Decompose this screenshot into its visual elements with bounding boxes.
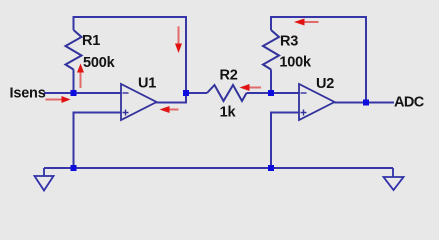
svg-text:R2: R2: [220, 68, 238, 84]
wire U1 feedback loop: R1 top lead, top wire, right drop to output: [74, 17, 187, 103]
resistor R1 (500k) zigzag: [66, 30, 82, 70]
svg-text:1k: 1k: [220, 105, 237, 121]
wire U2 feedback loop: R3 top lead, top wire, right drop: [271, 17, 366, 103]
resistor R2 (1k) zigzag: [207, 85, 247, 101]
svg-text:ADC: ADC: [394, 94, 425, 110]
node junction U2 output/feedback: [363, 100, 369, 106]
wire ground rail: [44, 167, 393, 169]
svg-text:R1: R1: [82, 33, 100, 49]
wire U2 noninverting input to ground: [271, 113, 299, 169]
current arrow right (Isens input): [46, 96, 71, 103]
node junction U1 output/feedback: [183, 90, 189, 96]
svg-text:500k: 500k: [83, 55, 116, 71]
wire Isens to U1 inverting input: [44, 92, 121, 94]
current arrow left (U1 output): [160, 106, 179, 113]
resistor R3 (100k) zigzag: [263, 30, 279, 70]
wire R2 right lead to U2 inverting input: [247, 92, 300, 94]
wire U1 noninverting input to ground: [74, 113, 122, 169]
wire R1 bottom lead: [73, 70, 75, 94]
current arrow left (U2 feedback): [294, 19, 319, 26]
wire R3 bottom lead: [270, 70, 272, 94]
wire U2 output to ADC: [335, 102, 395, 104]
svg-text:Isens: Isens: [10, 85, 46, 101]
svg-text:R3: R3: [280, 34, 298, 50]
svg-text:100k: 100k: [279, 55, 312, 71]
op-amp U1: [121, 84, 157, 120]
ground symbol left: [35, 168, 54, 191]
ground symbol right: [384, 168, 404, 190]
node junction Isens/R1/U1-: [71, 90, 77, 96]
wire U1 output to R2 left lead: [186, 92, 207, 94]
node junction U2+ ground: [268, 165, 274, 171]
current arrow down (U1 feedback): [175, 26, 182, 53]
node junction R2/R3/U2-: [268, 90, 274, 96]
svg-text:U1: U1: [138, 76, 156, 92]
svg-text:U2: U2: [316, 76, 334, 92]
op-amp U2: [299, 84, 335, 120]
current arrow up (R1 current): [77, 64, 84, 89]
current arrow left (R2 current): [240, 84, 262, 91]
node junction U1+ ground: [71, 165, 77, 171]
